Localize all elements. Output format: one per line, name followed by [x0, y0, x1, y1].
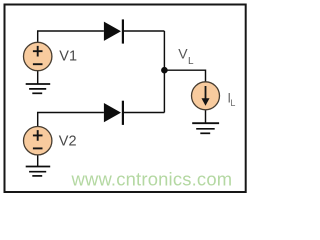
node VL junction dot: [161, 67, 168, 74]
wire node VL to current source IL: [164, 70, 205, 82]
wire IL bottom to ground: [205, 110, 207, 124]
svg-text:V1: V1: [59, 48, 77, 64]
ground (V2): [26, 167, 51, 176]
svg-text:L: L: [188, 56, 194, 67]
svg-text:www.cntronics.com: www.cntronics.com: [71, 169, 233, 190]
ground (V1): [26, 84, 51, 93]
svg-text:V2: V2: [59, 134, 77, 150]
wire D2 cathode to bus: [123, 112, 165, 114]
voltage source V1: [24, 42, 52, 70]
label VL: [178, 45, 194, 67]
svg-text:L: L: [230, 98, 235, 108]
wire V1 top to diode D1 anode: [38, 31, 104, 43]
diode D2: [104, 101, 123, 125]
label IL: [227, 90, 235, 108]
wire V2 bottom to ground: [37, 155, 39, 167]
wire V2 top to diode D2 anode: [38, 113, 104, 128]
wire V1 bottom to ground: [37, 71, 39, 85]
svg-text:V: V: [178, 45, 188, 61]
wire vertical bus D1/D2 outputs: [163, 31, 165, 113]
current source IL: [192, 82, 220, 110]
ground (IL): [192, 123, 219, 133]
voltage source V2: [24, 127, 52, 155]
diode D1: [104, 19, 123, 43]
wire D1 cathode to bus corner: [123, 30, 165, 32]
